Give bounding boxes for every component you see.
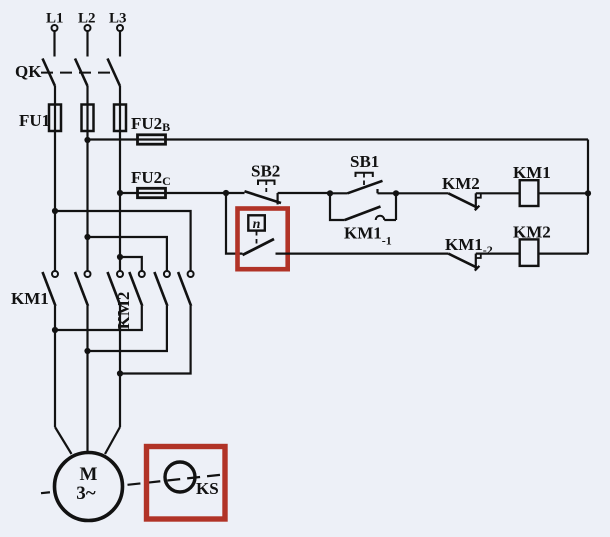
pushbutton SB2 NC contact bbox=[245, 191, 282, 204]
svg-text:SB2: SB2 bbox=[251, 162, 280, 181]
wire right rail bbox=[587, 140, 589, 254]
wire KM1 coil to rail bbox=[538, 192, 588, 194]
wire L1 to QK bbox=[53, 31, 55, 57]
svg-text:KM1: KM1 bbox=[513, 163, 551, 182]
speed switch KS circle bbox=[165, 462, 195, 492]
node motor lead1 junction bbox=[52, 327, 58, 333]
contactor KM2 main contact 5 bbox=[154, 271, 170, 306]
svg-text:n: n bbox=[253, 217, 261, 232]
speed relay KS n-box bbox=[248, 215, 264, 248]
shaft axis left stub dashed bbox=[41, 492, 55, 494]
node SB1 left junction bbox=[327, 190, 333, 196]
svg-text:SB1: SB1 bbox=[350, 152, 379, 171]
switch QK linkage dashed bbox=[41, 72, 112, 74]
svg-text:KS: KS bbox=[196, 479, 219, 498]
wire KM2 coil to rail bbox=[538, 253, 588, 255]
wire KM1 contact1 output down bbox=[54, 306, 56, 427]
pushbutton SB1 actuator bbox=[356, 173, 373, 189]
wire motor lead3 diagonal bbox=[105, 427, 120, 454]
contact KM2 NC interlock bbox=[448, 193, 481, 210]
contact KM1-2 NC interlock bbox=[448, 254, 481, 271]
wire L3 to QK bbox=[119, 31, 121, 57]
red highlight box around KS bbox=[147, 447, 226, 520]
wire KM2 contact5 output to lead2 bbox=[88, 306, 167, 351]
wire phase1 through FU1 down to KM1 contact bbox=[54, 105, 56, 271]
svg-text:FU1: FU1 bbox=[19, 111, 50, 130]
coil KM1 bbox=[520, 180, 539, 206]
node control branch junction bbox=[223, 190, 229, 196]
svg-text:KM2: KM2 bbox=[442, 174, 480, 193]
wire SB1 right bbox=[378, 192, 449, 194]
svg-text:KM2: KM2 bbox=[114, 292, 133, 330]
node L3 terminal bbox=[117, 25, 123, 31]
motor M 3~ bbox=[55, 453, 123, 521]
node motor lead2 junction bbox=[84, 348, 90, 354]
fuse FU2B bbox=[138, 135, 166, 144]
node crossover phase3 junction bbox=[117, 254, 123, 260]
contactor KM1 main contact 3 bbox=[108, 271, 124, 306]
wire KM2 contact6 output to lead3 bbox=[120, 306, 191, 374]
wire FU2B to right rail bbox=[166, 138, 589, 140]
fuse FU1 pole 3 bbox=[114, 105, 126, 132]
coil KM2 bbox=[520, 239, 539, 266]
fuse FU1 pole 2 bbox=[82, 105, 94, 132]
wire KM2 contact to KM1 coil bbox=[476, 192, 520, 194]
wire crossover phase2 to KM2 contact 5 bbox=[88, 237, 167, 271]
contactor KM1 main contact 2 bbox=[75, 271, 91, 306]
node L2 terminal bbox=[85, 25, 91, 31]
svg-text:QK: QK bbox=[15, 62, 42, 81]
wire FU2C tap to fuse bbox=[120, 192, 166, 194]
node motor lead3 junction bbox=[117, 370, 123, 376]
wire KM1 contact3 output down bbox=[119, 306, 121, 427]
wire QK to FU1 phase3 bbox=[119, 86, 121, 105]
wire KS contact to KM1-2 bbox=[276, 253, 449, 255]
contactor KM2 main contact 6 bbox=[178, 271, 194, 306]
switch QK pole 2 blade bbox=[75, 59, 88, 87]
wire KM2 contact4 output to lead1 bbox=[55, 306, 142, 330]
wire QK to FU1 phase1 bbox=[54, 86, 56, 105]
svg-text:KM2: KM2 bbox=[513, 223, 551, 242]
svg-text:L2: L2 bbox=[78, 11, 96, 27]
contactor KM1 main contact 1 bbox=[43, 271, 59, 306]
node FU2B tap junction bbox=[84, 137, 90, 143]
wire crossover phase1 to KM2 contact 6 bbox=[55, 211, 191, 271]
wire FU2C to SB2 bbox=[166, 192, 245, 194]
contactor KM2 main contact 4 bbox=[129, 271, 145, 306]
svg-text:M: M bbox=[80, 464, 98, 485]
switch QK pole 3 blade bbox=[108, 59, 121, 87]
wire KM1-2 contact to KM2 coil bbox=[476, 253, 520, 255]
wire FU2B tap to fuse bbox=[88, 138, 167, 140]
node crossover phase2 junction bbox=[84, 234, 90, 240]
pushbutton SB1 NO contact bbox=[348, 181, 383, 194]
wire branch down to KS contact bbox=[226, 193, 243, 254]
shaft axis right dashed bbox=[128, 474, 227, 485]
svg-text:KM1: KM1 bbox=[11, 289, 49, 308]
node rail row1 junction bbox=[585, 190, 591, 196]
svg-text:L3: L3 bbox=[109, 11, 127, 27]
fuse FU2C bbox=[138, 188, 166, 197]
wire SB2 to SB1 bbox=[278, 192, 330, 194]
node L1 terminal bbox=[52, 25, 58, 31]
wire SB1 left bbox=[330, 192, 348, 194]
wire phase2 through FU1 down to KM1 contact bbox=[86, 105, 88, 271]
wire KM1 contact2 output down bbox=[86, 306, 88, 453]
wire phase3 through FU1 down to KM1 contact bbox=[119, 105, 121, 271]
wire crossover phase3 to KM2 contact 4 bbox=[120, 257, 142, 271]
contact KM1-1 self-hold branch bbox=[330, 193, 396, 220]
speed relay KS contact blade bbox=[243, 239, 275, 255]
red highlight box around KS contact bbox=[238, 209, 288, 270]
svg-text:L1: L1 bbox=[46, 11, 64, 27]
fuse FU1 pole 1 bbox=[49, 105, 61, 132]
switch QK pole 1 blade bbox=[43, 59, 56, 87]
node SB1 right junction bbox=[393, 190, 399, 196]
svg-text:3~: 3~ bbox=[76, 483, 96, 504]
node crossover phase1 junction bbox=[52, 208, 58, 214]
wire QK to FU1 phase2 bbox=[86, 86, 88, 105]
wire motor lead1 diagonal bbox=[55, 427, 72, 454]
pushbutton SB2 actuator bbox=[258, 181, 275, 196]
node FU2C tap junction bbox=[117, 190, 123, 196]
wire L2 to QK bbox=[86, 31, 88, 57]
